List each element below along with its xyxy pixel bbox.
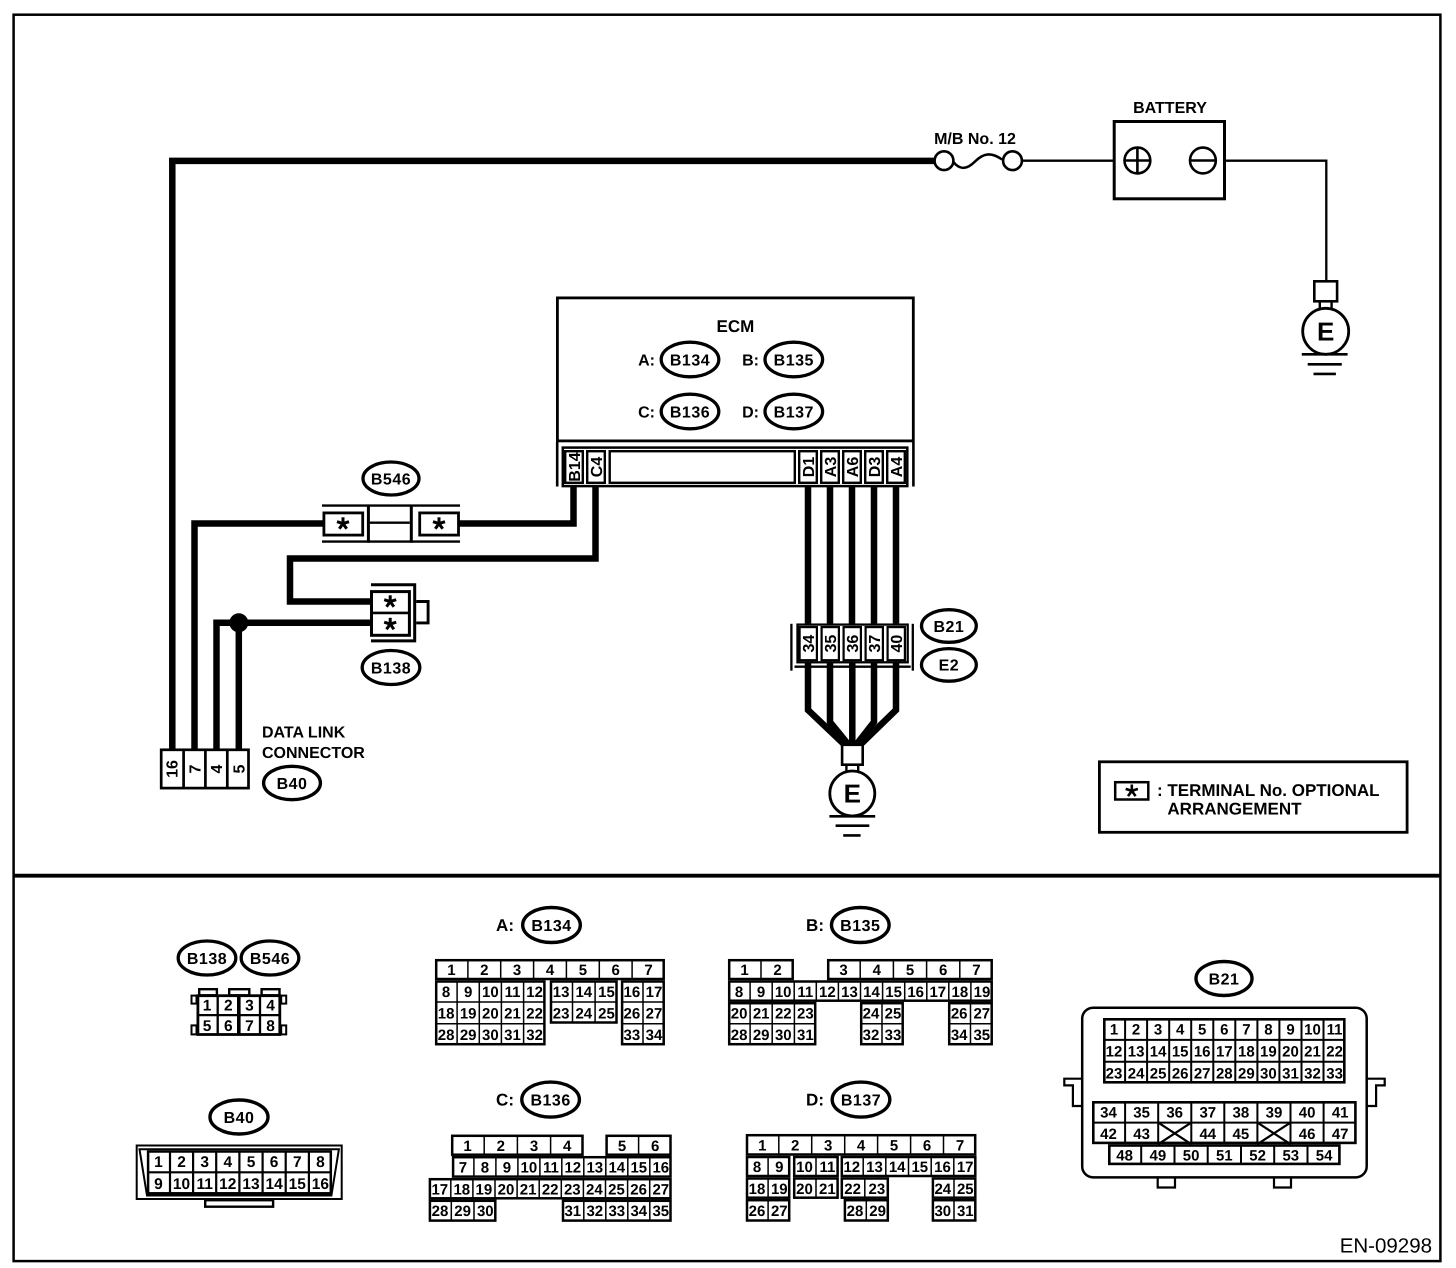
svg-text:42: 42 [1100, 1126, 1117, 1143]
svg-text:18: 18 [453, 1181, 470, 1198]
svg-text:2: 2 [224, 997, 233, 1014]
svg-text:32: 32 [586, 1203, 603, 1220]
svg-text:6: 6 [270, 1154, 279, 1171]
svg-text:2: 2 [177, 1154, 186, 1171]
wire main power feed from DLC pin16 up and right to fuse [172, 161, 934, 751]
connector B40 pinout label [210, 1100, 268, 1134]
svg-text:DATA LINK: DATA LINK [262, 725, 346, 742]
svg-text:33: 33 [1326, 1065, 1343, 1082]
svg-text:1: 1 [740, 962, 748, 979]
svg-text:15: 15 [885, 984, 902, 1001]
svg-text:31: 31 [564, 1203, 581, 1220]
svg-text:33: 33 [885, 1027, 902, 1044]
svg-text:D3: D3 [867, 457, 884, 478]
svg-text:A3: A3 [823, 457, 840, 478]
ground strip B21/E2 [791, 624, 912, 671]
svg-text:5: 5 [618, 1138, 626, 1155]
svg-text:B134: B134 [531, 918, 571, 935]
svg-text:35: 35 [1133, 1104, 1150, 1121]
svg-text:2: 2 [791, 1138, 799, 1155]
svg-text:30: 30 [934, 1203, 951, 1220]
svg-text:4: 4 [209, 764, 226, 773]
svg-text:29: 29 [1238, 1065, 1255, 1082]
svg-text:18: 18 [749, 1181, 766, 1198]
svg-text:36: 36 [1166, 1104, 1183, 1121]
connector B138 pinout label [178, 941, 236, 975]
svg-text:8: 8 [481, 1160, 489, 1177]
svg-text:E: E [844, 779, 861, 809]
svg-text:A4: A4 [889, 457, 906, 478]
svg-text:40: 40 [1299, 1104, 1316, 1121]
svg-text:6: 6 [612, 962, 620, 979]
svg-text:29: 29 [454, 1203, 471, 1220]
svg-text:51: 51 [1216, 1147, 1233, 1164]
svg-text:17: 17 [431, 1181, 448, 1198]
svg-text:13: 13 [553, 984, 570, 1001]
svg-text:39: 39 [1266, 1104, 1283, 1121]
svg-text:14: 14 [575, 984, 592, 1001]
svg-text:18: 18 [952, 984, 969, 1001]
svg-text:B546: B546 [371, 471, 411, 488]
connector B21 pinout [1064, 1008, 1384, 1188]
svg-text:4: 4 [546, 962, 555, 979]
svg-text:12: 12 [1106, 1043, 1123, 1060]
svg-text:21: 21 [504, 1006, 521, 1023]
svg-text:26: 26 [951, 1006, 968, 1023]
svg-text:29: 29 [869, 1203, 886, 1220]
data link connector B40 box [161, 750, 248, 789]
svg-text:10: 10 [173, 1176, 190, 1193]
svg-text:19: 19 [974, 984, 991, 1001]
svg-text:1: 1 [203, 997, 212, 1014]
wire ECM A3 down to ground strip [827, 485, 834, 625]
svg-text:29: 29 [460, 1027, 477, 1044]
svg-text:B21: B21 [1209, 971, 1240, 988]
section divider line [14, 874, 1441, 878]
svg-text:30: 30 [482, 1027, 499, 1044]
svg-text:17: 17 [957, 1159, 974, 1176]
wire DLC pin5 up to junction [236, 623, 243, 751]
ECM connector label C: B136 [638, 394, 719, 429]
svg-text:11: 11 [197, 1176, 214, 1193]
svg-text:C:: C: [638, 404, 655, 421]
svg-text:28: 28 [432, 1203, 449, 1220]
svg-text:20: 20 [731, 1006, 748, 1023]
svg-text:50: 50 [1183, 1147, 1200, 1164]
wire ECM A6 down to ground strip [849, 485, 856, 625]
ECM box [557, 298, 913, 441]
svg-text:14: 14 [889, 1159, 906, 1176]
svg-text:16: 16 [1194, 1043, 1211, 1060]
connector B138/B546 pinout [192, 989, 287, 1035]
svg-text:47: 47 [1332, 1126, 1349, 1143]
wire B546 to ECM B14 [458, 485, 574, 524]
svg-text:12: 12 [564, 1160, 581, 1177]
svg-text:4: 4 [223, 1154, 232, 1171]
connector B B135 pinout label [806, 908, 889, 943]
connector A B134 pinout label [496, 908, 580, 943]
svg-text:E2: E2 [939, 658, 960, 675]
svg-text:26: 26 [630, 1181, 647, 1198]
svg-text:4: 4 [1176, 1022, 1185, 1039]
svg-text:11: 11 [1327, 1022, 1343, 1039]
svg-text:7: 7 [245, 1018, 254, 1035]
svg-text:C:: C: [496, 1091, 514, 1110]
svg-text:5: 5 [231, 764, 248, 773]
connector D B137 pinout label [806, 1082, 890, 1117]
svg-text:13: 13 [866, 1159, 883, 1176]
svg-text:B40: B40 [224, 1110, 255, 1127]
connector B546 inline symbol [322, 505, 460, 543]
connector B546 pinout label [241, 941, 299, 975]
svg-text:5: 5 [247, 1154, 256, 1171]
svg-text:5: 5 [1198, 1022, 1206, 1039]
svg-text:3: 3 [513, 962, 521, 979]
svg-text:9: 9 [775, 1159, 783, 1176]
ground symbol E at battery [1302, 281, 1349, 374]
svg-text:1: 1 [463, 1138, 471, 1155]
svg-text:5: 5 [579, 962, 587, 979]
svg-text:4: 4 [873, 962, 882, 979]
svg-text:18: 18 [1238, 1043, 1255, 1060]
svg-text:B136: B136 [670, 404, 710, 421]
svg-text:23: 23 [564, 1181, 581, 1198]
svg-text:34: 34 [646, 1027, 663, 1044]
svg-text:17: 17 [1216, 1043, 1233, 1060]
svg-text:23: 23 [1106, 1065, 1123, 1082]
svg-text:24: 24 [863, 1006, 880, 1023]
svg-text:8: 8 [1264, 1022, 1272, 1039]
svg-text:34: 34 [1100, 1104, 1117, 1121]
svg-text:8: 8 [266, 1018, 275, 1035]
svg-text:16: 16 [652, 1160, 669, 1177]
svg-text:15: 15 [1172, 1043, 1189, 1060]
connector C B136 pinout label [496, 1082, 579, 1117]
svg-text:B138: B138 [187, 951, 227, 968]
svg-text:23: 23 [869, 1181, 886, 1198]
legend box terminal optional arrangement [1099, 762, 1407, 833]
svg-text:27: 27 [973, 1006, 990, 1023]
svg-text:36: 36 [845, 635, 862, 653]
svg-text:32: 32 [526, 1027, 543, 1044]
svg-text:1: 1 [154, 1154, 163, 1171]
svg-text:14: 14 [1150, 1043, 1167, 1060]
svg-text:B546: B546 [250, 951, 290, 968]
svg-text:4: 4 [563, 1138, 572, 1155]
svg-text:4: 4 [266, 997, 275, 1014]
svg-text:31: 31 [1282, 1065, 1299, 1082]
svg-text:8: 8 [735, 984, 743, 1001]
ECM connector label A: B134 [638, 342, 719, 377]
svg-text:A6: A6 [845, 457, 862, 478]
svg-text:15: 15 [911, 1159, 928, 1176]
svg-text:7: 7 [644, 962, 652, 979]
svg-text:26: 26 [749, 1203, 766, 1220]
svg-text:24: 24 [934, 1181, 951, 1198]
svg-text:C4: C4 [589, 457, 606, 478]
svg-text:44: 44 [1199, 1126, 1216, 1143]
svg-text:22: 22 [1326, 1043, 1343, 1060]
svg-text:38: 38 [1233, 1104, 1250, 1121]
svg-text:B135: B135 [774, 352, 814, 369]
connector C B136 pinout [430, 1136, 671, 1221]
svg-text:8: 8 [316, 1154, 325, 1171]
svg-text:6: 6 [1220, 1022, 1228, 1039]
ECM terminal strip [557, 442, 913, 487]
DATA LINK CONNECTOR label [262, 725, 365, 763]
svg-text:10: 10 [796, 1159, 813, 1176]
svg-text:12: 12 [526, 984, 543, 1001]
svg-text:40: 40 [889, 635, 906, 653]
svg-text:11: 11 [505, 984, 521, 1001]
svg-text:3: 3 [200, 1154, 209, 1171]
wire ECM D1 down to ground strip [805, 485, 812, 625]
svg-text:49: 49 [1150, 1147, 1167, 1164]
connector A B134 pinout [436, 960, 664, 1044]
svg-text:16: 16 [312, 1176, 330, 1193]
svg-text:16: 16 [934, 1159, 951, 1176]
connector B40 label [264, 766, 321, 799]
connector B138 label [362, 651, 420, 685]
svg-text:12: 12 [843, 1159, 860, 1176]
svg-text:16: 16 [165, 760, 182, 778]
svg-text:21: 21 [1304, 1043, 1321, 1060]
svg-text:22: 22 [542, 1181, 559, 1198]
svg-text:2: 2 [773, 962, 781, 979]
svg-text:19: 19 [1260, 1043, 1277, 1060]
svg-text:19: 19 [771, 1181, 788, 1198]
svg-text:3: 3 [839, 962, 847, 979]
svg-text:29: 29 [753, 1027, 770, 1044]
connector E2 label [922, 649, 977, 682]
svg-text:D:: D: [806, 1091, 824, 1110]
svg-text:21: 21 [520, 1181, 537, 1198]
svg-text:11: 11 [797, 984, 813, 1001]
svg-text:5: 5 [890, 1138, 898, 1155]
svg-text:20: 20 [796, 1181, 813, 1198]
svg-text:6: 6 [224, 1018, 233, 1035]
svg-text:21: 21 [753, 1006, 770, 1023]
svg-text:B137: B137 [841, 1092, 881, 1109]
wire DLC pin7 to B546 [195, 524, 325, 752]
svg-text:1: 1 [758, 1138, 766, 1155]
svg-text:31: 31 [504, 1027, 521, 1044]
svg-text:3: 3 [824, 1138, 832, 1155]
svg-text:B21: B21 [933, 619, 964, 636]
ECM connector label B: B135 [742, 342, 822, 377]
svg-text:B:: B: [742, 352, 759, 369]
svg-text:23: 23 [553, 1006, 570, 1023]
svg-text:54: 54 [1316, 1147, 1333, 1164]
svg-text:D:: D: [742, 404, 759, 421]
svg-text:11: 11 [543, 1160, 559, 1177]
svg-text:B14: B14 [567, 452, 584, 481]
svg-text:10: 10 [482, 984, 499, 1001]
fuse M/B No. 12 symbol [935, 151, 1022, 170]
wire ground funnel segment 4 [856, 659, 874, 745]
svg-text:46: 46 [1299, 1126, 1316, 1143]
svg-text:35: 35 [823, 635, 840, 653]
svg-text:18: 18 [438, 1006, 455, 1023]
svg-text:13: 13 [586, 1160, 603, 1177]
svg-text:7: 7 [956, 1138, 964, 1155]
svg-text:ECM: ECM [717, 317, 755, 336]
battery box [1114, 122, 1224, 199]
svg-text:7: 7 [459, 1160, 467, 1177]
svg-text:16: 16 [624, 984, 641, 1001]
svg-text:27: 27 [771, 1203, 788, 1220]
svg-text:9: 9 [464, 984, 472, 1001]
svg-text:15: 15 [289, 1176, 307, 1193]
svg-text:7: 7 [293, 1154, 302, 1171]
wire battery down to ground E [1325, 160, 1327, 282]
svg-text:13: 13 [841, 984, 858, 1001]
wire DLC pin4 to B138 bottom pin [217, 623, 373, 751]
svg-text:12: 12 [219, 1176, 236, 1193]
svg-text:43: 43 [1133, 1126, 1150, 1143]
svg-text:31: 31 [797, 1027, 814, 1044]
svg-text:13: 13 [1128, 1043, 1145, 1060]
svg-text:30: 30 [775, 1027, 792, 1044]
svg-text:20: 20 [498, 1181, 515, 1198]
svg-text:13: 13 [242, 1176, 260, 1193]
svg-text:25: 25 [885, 1006, 902, 1023]
wire ground funnel segment 5 [861, 659, 897, 745]
connector B21 pinout label [1196, 962, 1252, 996]
svg-text:24: 24 [586, 1181, 603, 1198]
svg-text:: TERMINAL No. OPTIONAL: : TERMINAL No. OPTIONAL [1157, 781, 1380, 800]
svg-text:1: 1 [1110, 1022, 1118, 1039]
svg-text:5: 5 [906, 962, 914, 979]
svg-text:10: 10 [521, 1160, 538, 1177]
svg-text:3: 3 [1154, 1022, 1162, 1039]
svg-text:B:: B: [806, 916, 824, 935]
svg-text:5: 5 [203, 1018, 212, 1035]
svg-text:3: 3 [530, 1138, 538, 1155]
svg-text:27: 27 [1194, 1065, 1211, 1082]
svg-text:35: 35 [973, 1027, 990, 1044]
svg-text:4: 4 [857, 1138, 866, 1155]
svg-text:25: 25 [598, 1006, 615, 1023]
svg-text:22: 22 [526, 1006, 543, 1023]
svg-text:22: 22 [775, 1006, 792, 1023]
connector D B137 pinout [747, 1135, 975, 1220]
svg-text:25: 25 [957, 1181, 974, 1198]
wire ECM D3 down to ground strip [871, 485, 878, 625]
svg-text:10: 10 [1304, 1022, 1321, 1039]
svg-text:7: 7 [187, 764, 204, 773]
svg-text:EN-09298: EN-09298 [1340, 1235, 1432, 1258]
svg-text:8: 8 [442, 984, 450, 1001]
svg-text:10: 10 [775, 984, 792, 1001]
svg-text:30: 30 [1260, 1065, 1277, 1082]
svg-text:3: 3 [245, 997, 254, 1014]
svg-text:45: 45 [1233, 1126, 1250, 1143]
svg-text:28: 28 [438, 1027, 455, 1044]
svg-text:25: 25 [1150, 1065, 1167, 1082]
connector B40 pinout [137, 1146, 342, 1207]
svg-text:B136: B136 [530, 1092, 570, 1109]
svg-text:2: 2 [1132, 1022, 1140, 1039]
wire ground funnel segment 1 [808, 659, 844, 745]
svg-text:28: 28 [847, 1203, 864, 1220]
svg-text:23: 23 [797, 1006, 814, 1023]
svg-text:1: 1 [447, 962, 455, 979]
svg-text:M/B No. 12: M/B No. 12 [934, 131, 1016, 148]
svg-text:33: 33 [608, 1203, 625, 1220]
svg-text:E: E [1317, 317, 1334, 347]
svg-text:24: 24 [575, 1006, 592, 1023]
svg-text:20: 20 [482, 1006, 499, 1023]
svg-text:35: 35 [652, 1203, 669, 1220]
svg-text:9: 9 [154, 1176, 163, 1193]
svg-text:48: 48 [1116, 1147, 1133, 1164]
svg-text:24: 24 [1128, 1065, 1145, 1082]
svg-text:15: 15 [630, 1160, 647, 1177]
svg-text:B135: B135 [840, 918, 880, 935]
svg-text:32: 32 [863, 1027, 880, 1044]
connector B21 label [922, 610, 977, 643]
svg-text:34: 34 [801, 635, 818, 653]
svg-text:26: 26 [624, 1006, 641, 1023]
svg-text:53: 53 [1282, 1147, 1299, 1164]
wire ground funnel segment 3 [849, 659, 856, 745]
svg-text:32: 32 [1304, 1065, 1321, 1082]
svg-text:14: 14 [265, 1176, 283, 1193]
svg-text:9: 9 [757, 984, 765, 1001]
svg-text:B137: B137 [774, 404, 814, 421]
wire ECM C4 to B138 top pin [290, 485, 596, 602]
svg-text:22: 22 [844, 1181, 861, 1198]
svg-text:30: 30 [477, 1203, 494, 1220]
svg-text:31: 31 [957, 1203, 974, 1220]
svg-text:37: 37 [1199, 1104, 1216, 1121]
svg-text:14: 14 [863, 984, 880, 1001]
svg-text:17: 17 [646, 984, 663, 1001]
connector B546 label [363, 462, 419, 495]
connector B B135 pinout [729, 960, 992, 1044]
connector B138 symbol [371, 585, 428, 641]
svg-text:2: 2 [480, 962, 488, 979]
svg-text:28: 28 [731, 1027, 748, 1044]
svg-text:ARRANGEMENT: ARRANGEMENT [1167, 799, 1302, 818]
svg-text:BATTERY: BATTERY [1133, 100, 1207, 117]
wire ground funnel segment 2 [830, 659, 848, 745]
svg-text:17: 17 [929, 984, 946, 1001]
svg-text:41: 41 [1332, 1104, 1349, 1121]
svg-text:6: 6 [651, 1138, 659, 1155]
svg-text:15: 15 [598, 984, 615, 1001]
svg-text:D1: D1 [801, 457, 818, 478]
svg-text:12: 12 [819, 984, 836, 1001]
svg-text:B40: B40 [277, 776, 308, 793]
svg-text:16: 16 [907, 984, 924, 1001]
svg-text:7: 7 [1242, 1022, 1250, 1039]
svg-text:7: 7 [972, 962, 980, 979]
svg-text:52: 52 [1249, 1147, 1266, 1164]
svg-text:14: 14 [608, 1160, 625, 1177]
svg-text:9: 9 [1286, 1022, 1294, 1039]
svg-text:CONNECTOR: CONNECTOR [262, 745, 365, 762]
svg-text:20: 20 [1282, 1043, 1299, 1060]
svg-text:27: 27 [646, 1006, 663, 1023]
svg-text:6: 6 [923, 1138, 931, 1155]
svg-text:8: 8 [753, 1159, 761, 1176]
ground symbol E below ground strip [829, 745, 875, 836]
svg-text:37: 37 [867, 635, 884, 653]
svg-text:11: 11 [819, 1159, 835, 1176]
svg-text:33: 33 [624, 1027, 641, 1044]
